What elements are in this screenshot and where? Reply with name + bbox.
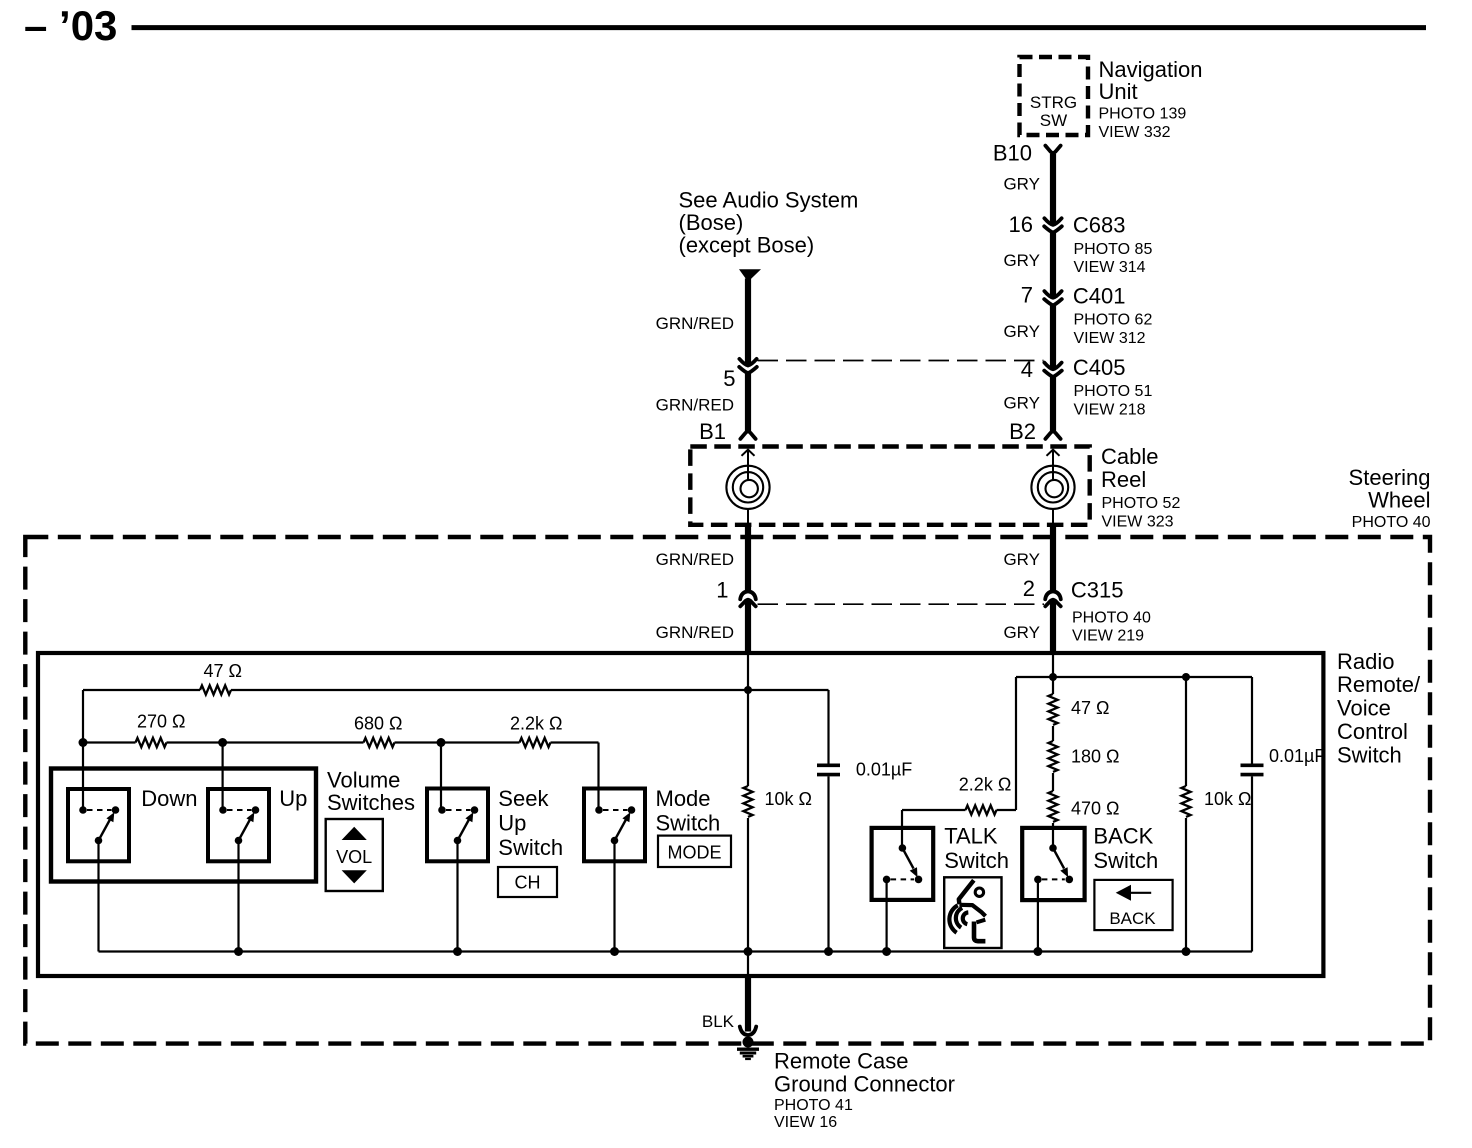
svg-text:Switch: Switch (498, 835, 563, 860)
svg-text:Remote/: Remote/ (1337, 672, 1421, 697)
wire 47ohm row (83, 689, 829, 691)
wire left capacitor branch upper (827, 690, 829, 764)
wire right horizontal row (1016, 676, 1252, 678)
wire left capacitor branch lower (827, 776, 829, 951)
wire GRN/RED C315 into switch box (745, 602, 751, 655)
svg-text:270 Ω: 270 Ω (137, 712, 186, 732)
svg-text:Up: Up (498, 811, 526, 836)
svg-text:47 Ω: 47 Ω (204, 661, 242, 681)
wire mode switch drop (597, 743, 599, 811)
svg-text:GRY: GRY (1003, 623, 1040, 642)
wire BLK ground lead (745, 974, 751, 1032)
node bus left cap (824, 947, 833, 956)
svg-text:Up: Up (279, 786, 307, 811)
svg-text:VOL: VOL (336, 847, 372, 867)
navigation unit STRG SW box (1020, 57, 1089, 135)
dashed connector link C315 (758, 603, 1045, 605)
svg-text:2.2k Ω: 2.2k Ω (959, 774, 1011, 794)
wire up switch drop (222, 743, 224, 811)
svg-text:47 Ω: 47 Ω (1071, 698, 1109, 718)
svg-text:– ’03: – ’03 (24, 2, 117, 49)
label Seek Up Switch (498, 786, 563, 860)
resistor 47 ohm left (200, 685, 231, 694)
svg-text:C401: C401 (1073, 284, 1126, 309)
svg-text:VIEW 16: VIEW 16 (774, 1114, 837, 1131)
svg-text:MODE: MODE (668, 842, 722, 862)
wire ground bus (99, 950, 1253, 952)
wire 270-680-2.2k row (83, 741, 599, 743)
svg-text:PHOTO 40: PHOTO 40 (1072, 609, 1151, 626)
svg-text:5: 5 (723, 366, 735, 391)
resistor 470 ohm (1048, 791, 1057, 822)
svg-text:Cable: Cable (1101, 444, 1158, 469)
wire mode switch output (613, 841, 615, 952)
resistor 10k ohm right (1181, 786, 1190, 817)
svg-text:CH: CH (515, 872, 541, 892)
terminal fork B10 (1045, 146, 1060, 153)
wire up switch output (237, 841, 239, 952)
svg-text:PHOTO 62: PHOTO 62 (1074, 311, 1153, 328)
wire right capacitor branch upper (1251, 677, 1253, 764)
wire GRY C315 into switch box (1050, 602, 1056, 655)
steering wheel dashed box (25, 537, 1430, 1044)
wire down switch output (97, 841, 99, 952)
svg-text:Wheel: Wheel (1368, 487, 1430, 512)
terminal fork B1 (740, 432, 755, 439)
node bus seek (453, 947, 462, 956)
switch Down (68, 789, 129, 861)
switch TALK (872, 828, 934, 900)
svg-text:GRN/RED: GRN/RED (656, 550, 734, 569)
svg-text:GRY: GRY (1003, 393, 1040, 412)
svg-text:Reel: Reel (1101, 467, 1146, 492)
volume switches label (327, 768, 415, 815)
connector C401 label (1073, 284, 1153, 348)
node bus up (234, 947, 243, 956)
svg-text:680 Ω: 680 Ω (354, 714, 403, 734)
svg-text:Unit: Unit (1099, 79, 1138, 104)
svg-text:(Bose): (Bose) (679, 210, 744, 235)
VOL icon box (326, 819, 383, 891)
node junction seek switch tap (437, 738, 446, 747)
switch Mode (584, 789, 645, 862)
wire left vertical branch (82, 690, 84, 810)
node bus talk (882, 947, 891, 956)
connector C401 pin 7 (1044, 291, 1062, 305)
svg-text:VIEW 314: VIEW 314 (1074, 259, 1146, 276)
wire between 180 and 470 (1052, 773, 1054, 791)
svg-text:B2: B2 (1009, 419, 1036, 444)
node bus main (744, 947, 753, 956)
TALK speak icon (944, 877, 1001, 948)
wire talk input drop (901, 810, 903, 848)
connector C405 pin 5 (739, 359, 757, 373)
wire right capacitor branch lower (1251, 776, 1253, 951)
connector C683 pin 16 (1044, 218, 1062, 232)
MODE icon box (658, 836, 731, 867)
volume switches group box (51, 769, 316, 882)
wire right 10k branch upper (1185, 677, 1187, 786)
svg-text:B10: B10 (993, 141, 1032, 166)
wire left 10k branch lower (747, 818, 749, 952)
svg-text:C405: C405 (1073, 355, 1126, 380)
wire GRN/RED C405 to B1 (745, 373, 751, 431)
steering wheel label (1349, 465, 1431, 531)
svg-text:2: 2 (1023, 576, 1035, 601)
svg-text:Switch: Switch (1337, 742, 1402, 767)
ground terminal cup (740, 1027, 756, 1035)
svg-text:0.01µF: 0.01µF (856, 760, 912, 780)
svg-text:1: 1 (716, 578, 728, 603)
svg-text:See Audio System: See Audio System (679, 188, 859, 213)
switch Up (208, 789, 269, 861)
switch BACK (1022, 828, 1084, 900)
svg-text:GRN/RED: GRN/RED (656, 623, 734, 642)
svg-text:PHOTO 52: PHOTO 52 (1102, 495, 1181, 512)
wire back switch output (1037, 879, 1039, 951)
svg-text:10k Ω: 10k Ω (765, 789, 812, 809)
wire talk branch vertical (1015, 677, 1017, 810)
svg-text:VIEW 332: VIEW 332 (1099, 124, 1171, 141)
connector C315 pin 2 (1045, 591, 1061, 606)
svg-text:GRY: GRY (1003, 251, 1040, 270)
svg-text:10k Ω: 10k Ω (1204, 789, 1251, 809)
svg-text:GRN/RED: GRN/RED (656, 314, 734, 333)
node bus back (1033, 947, 1042, 956)
svg-text:7: 7 (1021, 283, 1033, 308)
wire GRY thin into junction (1052, 654, 1054, 694)
connector C683 label (1073, 213, 1153, 277)
svg-text:C683: C683 (1073, 213, 1126, 238)
ground symbol bars (737, 1049, 759, 1059)
connector C315 pin 1 (740, 591, 756, 606)
wire seek switch drop (440, 743, 442, 811)
svg-text:Control: Control (1337, 719, 1408, 744)
svg-text:180 Ω: 180 Ω (1071, 746, 1120, 766)
svg-text:PHOTO 51: PHOTO 51 (1074, 383, 1153, 400)
wire GRY C401 to C405 (1050, 305, 1056, 369)
svg-text:GRY: GRY (1003, 322, 1040, 341)
remote case ground connector label (774, 1048, 955, 1131)
svg-text:GRY: GRY (1003, 175, 1040, 194)
svg-text:Switches: Switches (327, 790, 415, 815)
svg-text:Remote Case: Remote Case (774, 1048, 909, 1073)
wire GRY nav to C683 (1050, 154, 1056, 225)
svg-text:(except Bose): (except Bose) (679, 232, 815, 257)
arrow from audio system (739, 269, 761, 282)
svg-text:STRG: STRG (1030, 93, 1077, 112)
wire right 10k branch lower (1185, 818, 1187, 952)
connector C315 label (1071, 578, 1151, 645)
svg-text:Ground Connector: Ground Connector (774, 1072, 955, 1097)
wire GRY C405 to B2 (1050, 377, 1056, 432)
radio remote voice control switch box (38, 653, 1323, 976)
node bus right 10k (1182, 947, 1191, 956)
svg-text:Voice: Voice (1337, 696, 1391, 721)
svg-text:SW: SW (1040, 111, 1067, 130)
wire talk switch output (885, 879, 887, 951)
svg-text:VIEW 323: VIEW 323 (1102, 513, 1174, 530)
CH icon box (498, 867, 557, 897)
svg-text:Down: Down (141, 786, 197, 811)
svg-text:BLK: BLK (702, 1012, 735, 1031)
svg-text:16: 16 (1009, 212, 1033, 237)
svg-text:Mode: Mode (656, 786, 711, 811)
svg-text:Switch: Switch (656, 811, 721, 836)
header rule line (132, 25, 1427, 30)
resistor 2.2k ohm left (520, 738, 551, 747)
resistor 680 ohm (364, 738, 395, 747)
ground connector dot (743, 1037, 754, 1048)
node junction up switch tap (218, 738, 227, 747)
see audio system label (679, 188, 859, 258)
navigation unit label (1099, 57, 1203, 141)
capacitor 0.01uF left (817, 765, 840, 774)
svg-text:Volume: Volume (327, 768, 400, 793)
wire bus to box edge (747, 952, 749, 977)
wire GRN/RED audio to C405 (745, 279, 751, 366)
svg-text:GRN/RED: GRN/RED (656, 396, 734, 415)
connector C405 pin 4 (1044, 363, 1062, 377)
terminal fork B2 (1045, 432, 1060, 439)
capacitor 0.01uF right (1241, 765, 1264, 774)
wire talk branch horizontals (902, 809, 1016, 811)
resistor 10k ohm left (743, 786, 752, 817)
dashed connector link C405 (758, 360, 1044, 362)
svg-text:C315: C315 (1071, 578, 1124, 603)
switch Seek Up (427, 789, 488, 862)
svg-text:Radio: Radio (1337, 649, 1394, 674)
wire GRN/RED reel to C315 (745, 525, 751, 592)
svg-text:VIEW 218: VIEW 218 (1074, 402, 1146, 419)
node junction down switch tap (79, 738, 88, 747)
svg-text:TALK: TALK (944, 824, 998, 849)
label BACK Switch (1093, 824, 1158, 874)
wire left 10k branch upper (747, 690, 749, 786)
svg-text:470 Ω: 470 Ω (1071, 799, 1120, 819)
wire back input drop (1052, 823, 1054, 848)
svg-text:GRY: GRY (1003, 550, 1040, 569)
radio remote label (1337, 649, 1421, 768)
cable reel coil B1 side (726, 450, 769, 527)
resistor 270 ohm (136, 738, 167, 747)
svg-text:VIEW 219: VIEW 219 (1072, 627, 1144, 644)
wire GRY C683 to C401 (1050, 233, 1056, 298)
svg-text:2.2k Ω: 2.2k Ω (510, 714, 562, 734)
wire between 47 and 180 (1052, 726, 1054, 741)
svg-text:BACK: BACK (1093, 824, 1153, 849)
label TALK Switch (944, 824, 1009, 874)
cable reel coil B2 side (1031, 450, 1074, 527)
node junction GRY x right row (1049, 673, 1057, 681)
svg-text:VIEW 312: VIEW 312 (1074, 330, 1146, 347)
svg-text:PHOTO 85: PHOTO 85 (1074, 241, 1153, 258)
svg-text:PHOTO 40: PHOTO 40 (1352, 514, 1431, 531)
svg-text:0.01µF: 0.01µF (1269, 746, 1325, 766)
wire seek switch output (456, 841, 458, 952)
svg-text:B1: B1 (699, 419, 726, 444)
connector C405 label (1073, 355, 1153, 419)
wire GRY reel to C315 (1050, 525, 1056, 592)
svg-text:Switch: Switch (1093, 848, 1158, 873)
label Mode Switch (656, 786, 721, 836)
node junction right 10k tap (1182, 673, 1190, 681)
svg-text:BACK: BACK (1109, 909, 1156, 928)
node junction GRN/RED x resistor row (744, 686, 752, 694)
node bus mode (610, 947, 619, 956)
resistor 47 ohm right (1048, 694, 1057, 725)
cable reel label (1101, 444, 1180, 531)
cable reel box (690, 447, 1089, 525)
resistor 180 ohm (1048, 741, 1057, 772)
BACK icon (1094, 880, 1172, 930)
svg-text:Switch: Switch (944, 848, 1009, 873)
resistor 2.2k ohm right (966, 805, 997, 814)
svg-text:PHOTO 41: PHOTO 41 (774, 1097, 853, 1114)
svg-text:PHOTO 139: PHOTO 139 (1099, 106, 1187, 123)
svg-text:Seek: Seek (498, 786, 549, 811)
